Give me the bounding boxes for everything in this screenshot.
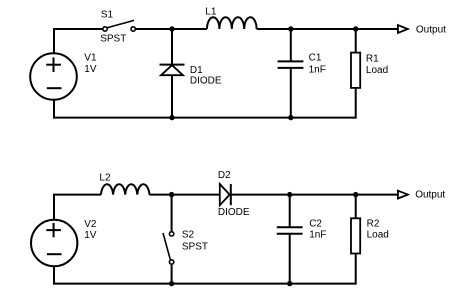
svg-text:SPST: SPST [182,242,208,253]
svg-text:C1: C1 [309,52,322,63]
wire: C2 bottom lead [289,234,291,284]
svg-text:1V: 1V [84,64,97,75]
wire: R1 bottom lead to bottom rail corner [355,88,357,119]
junction dot C2 top [287,192,292,197]
wire: R1 top lead [355,29,357,52]
output arrow (bottom circuit) [398,191,408,199]
wire: diode D2 cathode to output arrow (passes C2 and R2 nodes) [231,194,398,196]
wire: V2 top lead up to top rail [54,195,101,220]
resistor R1 [351,53,360,88]
wire: inductor L1 to output arrow (passes C1 and R1 nodes) [257,28,398,30]
wire: S2 bottom lead down to bottom rail [171,264,173,283]
wire: C1 bottom lead [290,68,292,118]
wire: R2 top lead [355,195,357,218]
wire: R2 bottom lead to bottom rail corner [355,254,357,285]
svg-text:V2: V2 [84,219,97,230]
voltage source V1 [30,53,77,100]
junction dot C1 bottom [288,115,293,120]
svg-text:DIODE: DIODE [190,75,222,86]
output arrow (top circuit) [398,25,408,33]
svg-text:L1: L1 [205,6,217,17]
inductor L1 [207,17,257,29]
svg-text:1nF: 1nF [309,65,326,76]
switch S1 [103,20,136,31]
inductor L2 [101,184,149,194]
diode D2 [220,184,231,205]
wire: V2 bottom lead to bottom rail [54,266,356,284]
junction dot D1 bottom [169,115,174,120]
wire: switch S1 right terminal to node A junction [136,28,172,30]
diode D1 [160,65,185,76]
junction dot S2 bottom [169,281,174,286]
svg-text:R2: R2 [367,219,380,230]
resistor R2 [351,218,360,253]
voltage source V2 [31,220,77,266]
node A junction dot (switch node, D1 top) [169,26,174,31]
junction dot C1 top [288,26,293,31]
svg-text:D2: D2 [218,170,231,181]
svg-text:1nF: 1nF [309,229,326,240]
svg-text:SPST: SPST [100,34,126,45]
svg-text:Output: Output [416,25,446,36]
switch S2 [163,232,174,264]
svg-text:Output: Output [415,190,445,201]
svg-text:S1: S1 [101,10,114,21]
svg-text:L2: L2 [99,173,111,184]
junction dot R1 top [353,26,358,31]
wire: S2 top lead down from node B [171,195,173,232]
junction dot R2 top [353,192,358,197]
wire: V1 bottom lead to bottom rail [54,100,356,118]
svg-text:DIODE: DIODE [218,207,250,218]
wire: node A down to diode D1 cathode [171,29,173,65]
svg-text:1V: 1V [84,230,97,241]
svg-text:R1: R1 [366,53,379,64]
wire: node A junction to inductor L1 [172,28,207,30]
wire: V1 top lead up to top rail [53,28,102,53]
node B junction dot (S2 top) [169,192,174,197]
wire: inductor L2 to diode D2 anode (passes S2 node) [149,194,219,196]
svg-text:Load: Load [367,229,389,240]
capacitor C1 [278,61,304,68]
svg-text:V1: V1 [84,53,97,64]
junction dot C2 bottom [287,281,292,286]
svg-text:C2: C2 [309,219,322,230]
wire: C1 top lead [290,29,292,61]
svg-text:Load: Load [366,65,388,76]
capacitor C2 [277,227,303,234]
wire: C2 top lead [289,195,291,228]
svg-text:S2: S2 [182,229,195,240]
wire: diode D1 anode down to bottom rail [171,75,173,117]
